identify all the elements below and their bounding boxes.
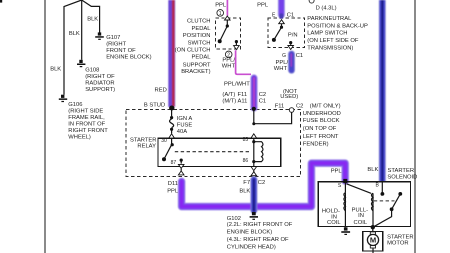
svg-text:86: 86 xyxy=(243,158,249,164)
svg-text:POSITION: POSITION xyxy=(183,33,211,39)
svg-text:SWITCH: SWITCH xyxy=(188,40,211,46)
svg-text:(M/T ONLY): (M/T ONLY) xyxy=(310,104,341,110)
svg-text:MOTOR: MOTOR xyxy=(387,241,408,247)
svg-text:PPL: PPL xyxy=(257,2,269,8)
svg-text:(2.2L: RIGHT FRONT OF: (2.2L: RIGHT FRONT OF xyxy=(227,222,293,228)
svg-text:C1: C1 xyxy=(287,13,294,19)
svg-text:PPL/WHT: PPL/WHT xyxy=(224,82,250,88)
svg-text:(RIGHT OF: (RIGHT OF xyxy=(85,74,115,80)
svg-text:PPL: PPL xyxy=(331,169,343,175)
svg-text:FUSE: FUSE xyxy=(177,123,193,129)
svg-text:87: 87 xyxy=(171,160,177,166)
svg-text:SOLENOID: SOLENOID xyxy=(387,175,417,181)
svg-text:F7: F7 xyxy=(243,180,250,186)
svg-text:LAMP SWITCH: LAMP SWITCH xyxy=(307,31,347,37)
svg-text:RELAY: RELAY xyxy=(137,144,156,150)
svg-text:COIL: COIL xyxy=(354,220,368,226)
svg-text:(ON TOP OF: (ON TOP OF xyxy=(303,126,337,132)
svg-text:(M/T): (M/T) xyxy=(222,99,236,105)
svg-text:FRONT OF: FRONT OF xyxy=(106,48,136,54)
svg-text:(A/T): (A/T) xyxy=(222,92,235,98)
svg-text:RADIATOR: RADIATOR xyxy=(85,81,114,87)
svg-text:PPL: PPL xyxy=(215,2,227,8)
svg-text:PPL: PPL xyxy=(167,189,179,195)
svg-text:C2: C2 xyxy=(259,92,266,98)
svg-text:ENGINE BLOCK): ENGINE BLOCK) xyxy=(227,229,272,235)
svg-text:WHT: WHT xyxy=(274,66,288,72)
svg-text:D11: D11 xyxy=(168,181,178,187)
svg-text:PEDAL: PEDAL xyxy=(191,55,211,61)
svg-text:G106: G106 xyxy=(68,102,82,108)
svg-text:30: 30 xyxy=(161,138,167,144)
svg-text:IN: IN xyxy=(358,213,364,219)
svg-text:D (4.3L): D (4.3L) xyxy=(316,6,337,12)
svg-text:POSITION & BACK-UP: POSITION & BACK-UP xyxy=(307,23,368,29)
svg-text:PARK/NEUTRAL: PARK/NEUTRAL xyxy=(307,16,352,22)
svg-text:FRAME RAIL,: FRAME RAIL, xyxy=(68,115,105,121)
svg-text:STARTER: STARTER xyxy=(130,138,157,144)
svg-text:(4.3L: RIGHT REAR OF: (4.3L: RIGHT REAR OF xyxy=(227,237,289,243)
svg-text:(RIGHT: (RIGHT xyxy=(106,41,126,47)
svg-text:G108: G108 xyxy=(85,68,99,74)
svg-text:IGN A: IGN A xyxy=(177,116,193,122)
svg-text:(ON CLUTCH: (ON CLUTCH xyxy=(175,48,211,54)
svg-text:M: M xyxy=(370,236,376,245)
svg-text:(RIGHT SIDE: (RIGHT SIDE xyxy=(68,109,103,115)
svg-text:STARTER: STARTER xyxy=(388,168,415,174)
svg-text:C2: C2 xyxy=(258,180,265,186)
svg-text:(ON LEFT SIDE OF: (ON LEFT SIDE OF xyxy=(307,38,359,44)
svg-text:B STUD: B STUD xyxy=(144,102,165,108)
svg-text:F11: F11 xyxy=(275,104,285,110)
svg-text:G: G xyxy=(282,53,286,59)
svg-text:LEFT FRONT: LEFT FRONT xyxy=(303,134,339,140)
svg-text:BLK: BLK xyxy=(239,189,250,195)
svg-text:WHEEL): WHEEL) xyxy=(68,135,91,141)
svg-text:C1: C1 xyxy=(259,99,266,105)
svg-text:BLK: BLK xyxy=(69,31,80,37)
svg-text:SUPPORT): SUPPORT) xyxy=(85,87,115,93)
svg-text:1: 1 xyxy=(219,11,222,17)
svg-text:BLK: BLK xyxy=(87,16,98,22)
svg-text:UNDERHOOD: UNDERHOOD xyxy=(303,111,341,117)
svg-text:COIL: COIL xyxy=(327,220,341,226)
svg-text:CYLINDER HEAD): CYLINDER HEAD) xyxy=(227,244,276,250)
svg-text:BLK: BLK xyxy=(50,66,61,72)
svg-text:FENDER): FENDER) xyxy=(303,142,329,148)
svg-text:RIGHT FRONT: RIGHT FRONT xyxy=(68,128,108,134)
svg-text:WHT: WHT xyxy=(222,63,236,69)
svg-text:ENGINE BLOCK): ENGINE BLOCK) xyxy=(106,54,151,60)
svg-text:SUPPORT: SUPPORT xyxy=(183,62,211,68)
svg-text:TRANSMISSION): TRANSMISSION) xyxy=(307,46,353,52)
svg-text:USED): USED) xyxy=(280,94,298,100)
svg-text:P/N: P/N xyxy=(288,32,298,38)
svg-text:G107: G107 xyxy=(106,35,120,41)
svg-text:BRACKET): BRACKET) xyxy=(181,69,210,75)
svg-text:PEDAL: PEDAL xyxy=(191,26,211,32)
svg-text:A11: A11 xyxy=(238,99,248,105)
svg-text:C2: C2 xyxy=(296,104,303,110)
svg-text:F11: F11 xyxy=(238,92,248,98)
svg-text:C1: C1 xyxy=(296,53,303,59)
svg-text:85: 85 xyxy=(243,137,249,143)
svg-text:BLK: BLK xyxy=(367,167,378,173)
svg-text:FUSE BLOCK: FUSE BLOCK xyxy=(303,118,340,124)
svg-text:CLUTCH: CLUTCH xyxy=(187,19,211,25)
svg-text:RED: RED xyxy=(155,88,167,94)
svg-text:IN FRONT OF: IN FRONT OF xyxy=(68,122,105,128)
svg-text:40A: 40A xyxy=(177,129,187,135)
